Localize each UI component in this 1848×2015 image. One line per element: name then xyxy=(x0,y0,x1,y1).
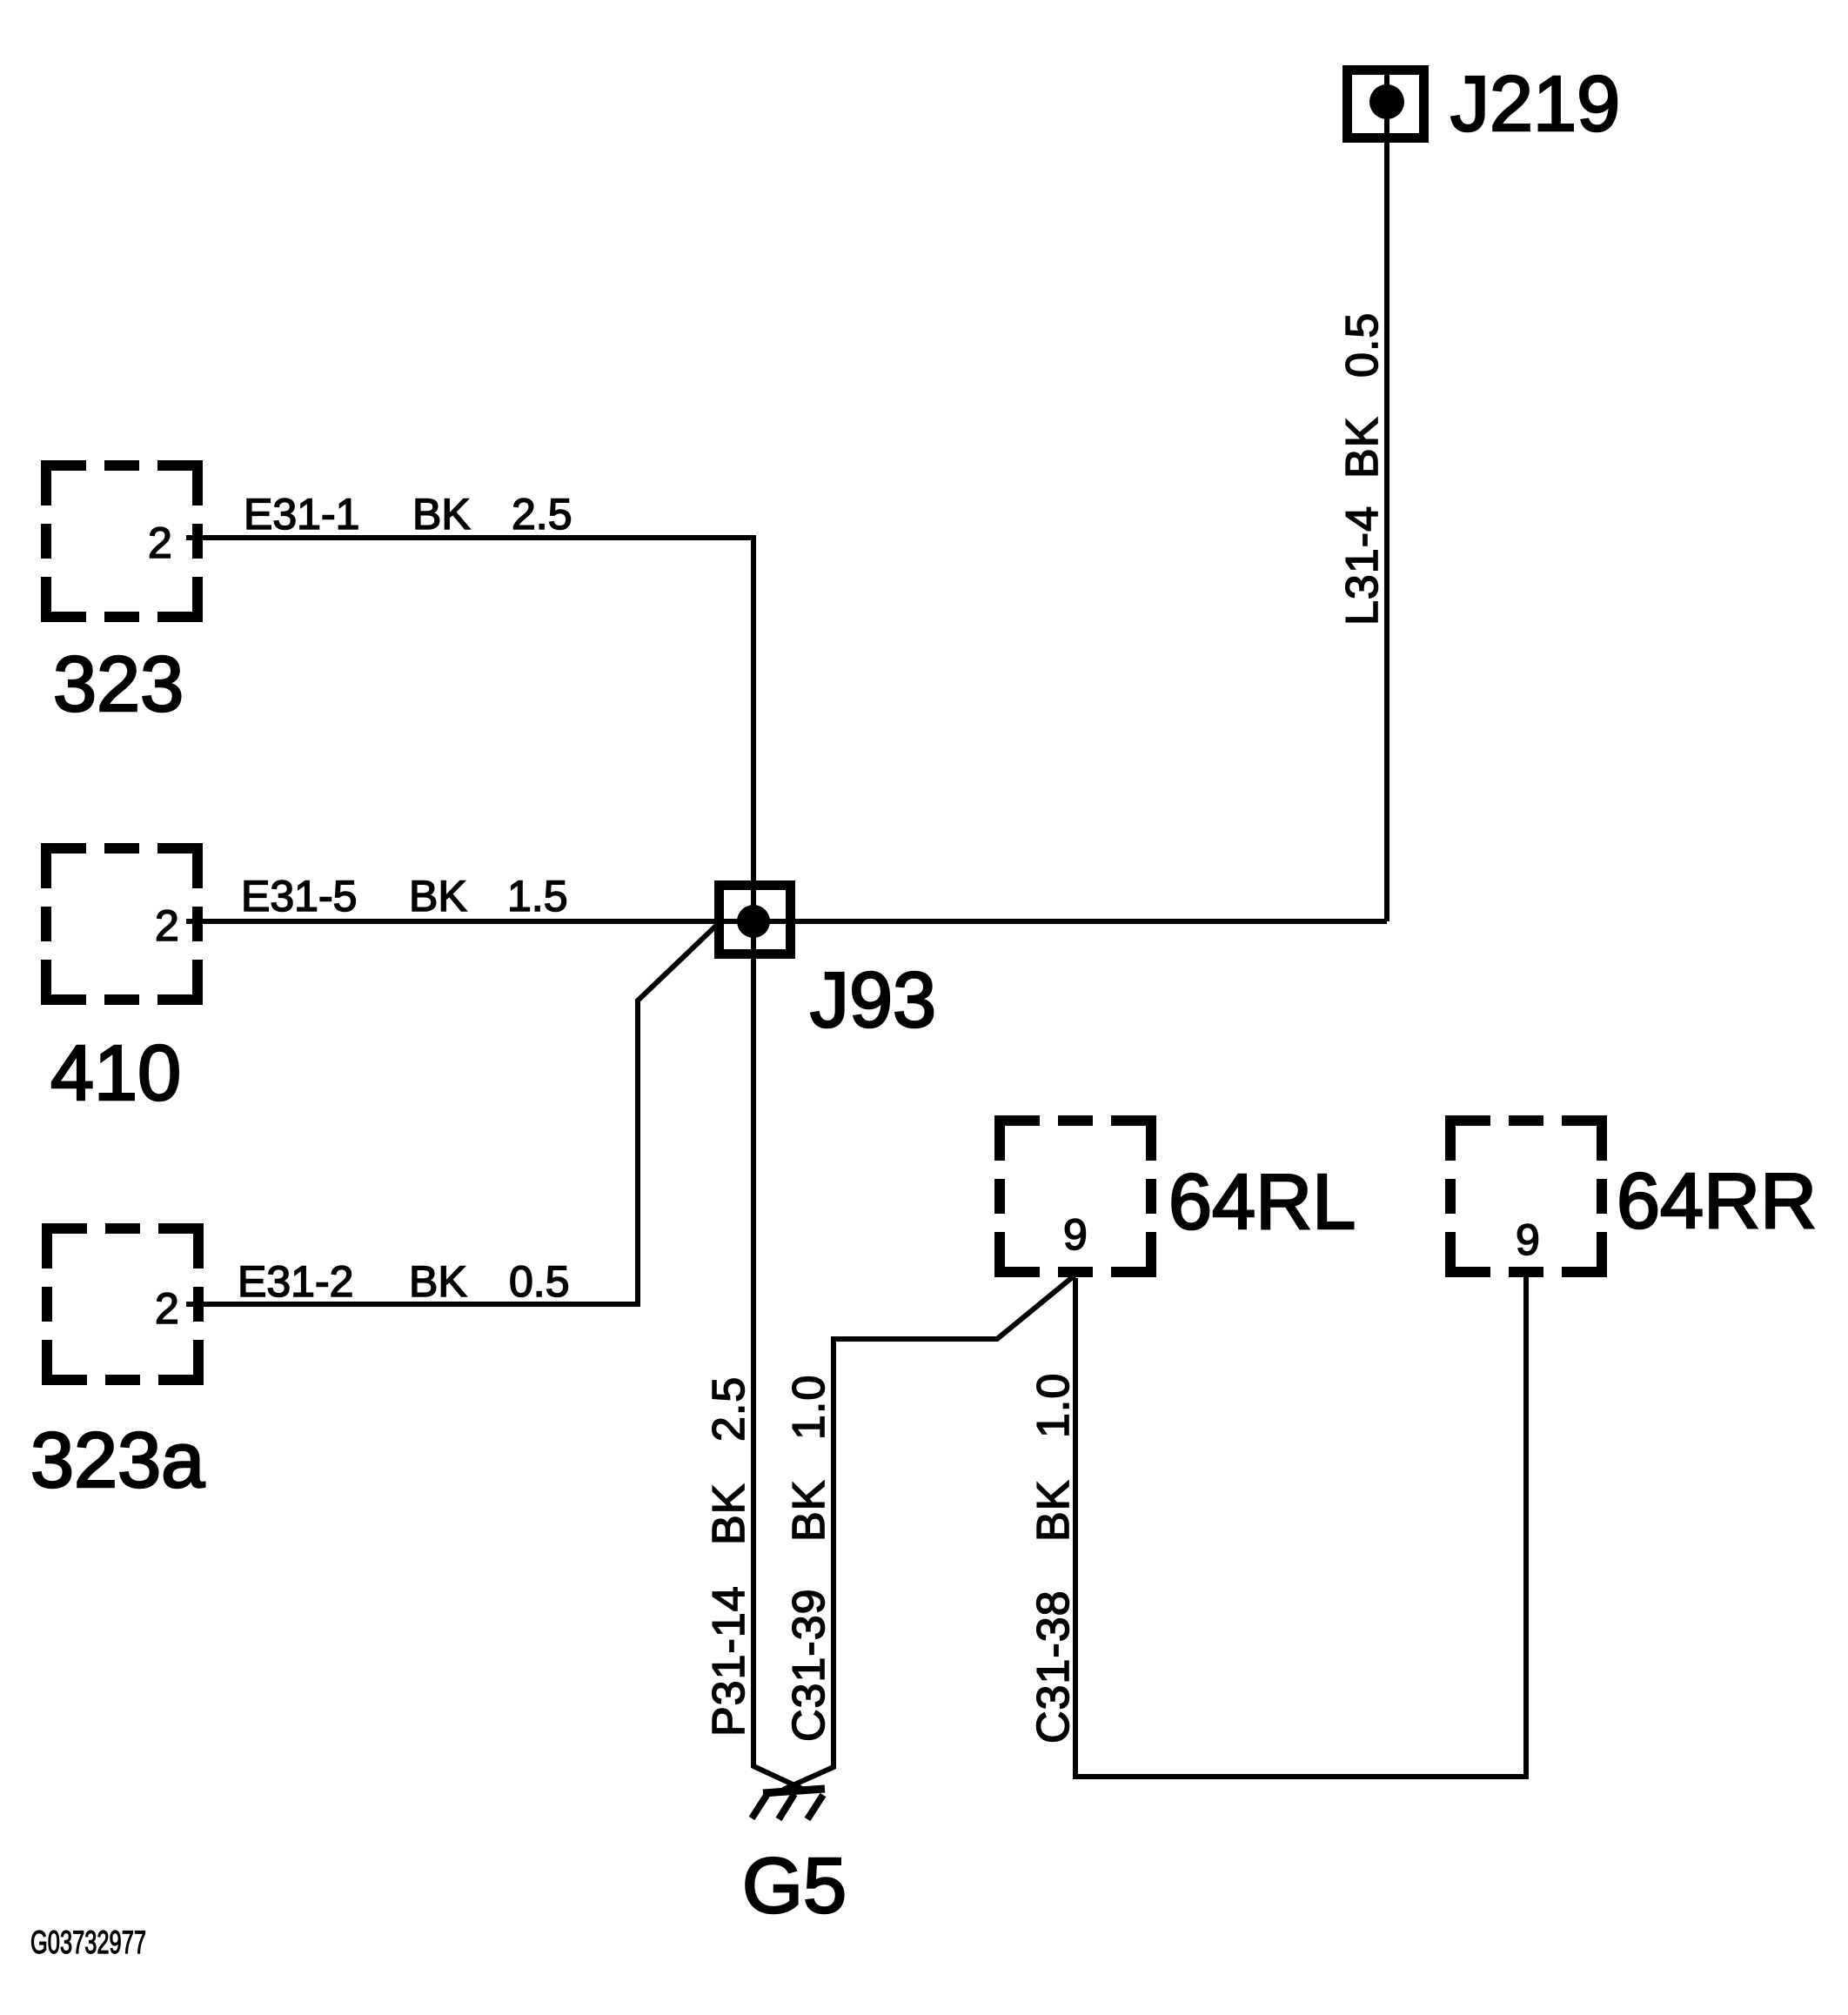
wire C31-39 from 64RL pin 9 to ground G5 xyxy=(783,1275,1075,1790)
svg-text:G5: G5 xyxy=(742,1843,847,1930)
ground G5 hatch 2 xyxy=(779,1794,794,1819)
wire E31-5 from 410 pin 2 through splice J93 to J219 drop xyxy=(186,919,1387,924)
splice J93 dot xyxy=(737,905,770,938)
wire label L31-4 BK 0.5 xyxy=(1337,312,1388,626)
svg-text:2.5: 2.5 xyxy=(512,490,572,539)
svg-text:323a: 323a xyxy=(30,1417,205,1504)
wire label E31-2 BK 0.5 xyxy=(238,1257,570,1306)
svg-text:9: 9 xyxy=(1063,1210,1088,1259)
svg-text:2.5: 2.5 xyxy=(704,1376,754,1442)
svg-text:323: 323 xyxy=(53,641,184,728)
splice J219 dot xyxy=(1369,84,1404,119)
connector 64RL (dashed box) xyxy=(1000,1121,1151,1272)
svg-text:BK: BK xyxy=(409,1257,467,1306)
svg-text:1.0: 1.0 xyxy=(784,1375,834,1440)
svg-text:1.5: 1.5 xyxy=(507,872,568,920)
svg-text:P31-14: P31-14 xyxy=(704,1585,754,1737)
svg-text:J93: J93 xyxy=(810,957,936,1044)
wire label E31-5 BK 1.5 xyxy=(241,872,568,920)
svg-text:C31-38: C31-38 xyxy=(1028,1590,1079,1744)
connector 410 (dashed box) xyxy=(46,848,198,1000)
wire label P31-14 BK 2.5 xyxy=(704,1376,754,1737)
svg-text:9: 9 xyxy=(1516,1215,1540,1264)
splice J219 box xyxy=(1348,70,1424,138)
svg-text:64RR: 64RR xyxy=(1617,1158,1817,1245)
connector 64RR (dashed box) xyxy=(1450,1121,1602,1272)
svg-text:BK: BK xyxy=(412,490,471,539)
svg-text:BK: BK xyxy=(784,1480,834,1542)
svg-text:G03732977: G03732977 xyxy=(30,1925,146,1960)
svg-text:0.5: 0.5 xyxy=(509,1257,570,1306)
svg-text:2: 2 xyxy=(148,519,172,567)
ground G5 symbol bar xyxy=(763,1789,825,1793)
wire E31-1 from 323 pin 2 to splice J93, continuing down as P31-14 to ground G5 xyxy=(186,538,804,1790)
svg-text:E31-2: E31-2 xyxy=(238,1257,353,1306)
wire E31-2 from 323a pin 2 to splice J93 xyxy=(186,926,716,1304)
svg-text:L31-4: L31-4 xyxy=(1337,505,1388,626)
svg-text:BK: BK xyxy=(1028,1480,1079,1542)
svg-text:BK: BK xyxy=(704,1483,754,1545)
svg-text:64RL: 64RL xyxy=(1168,1159,1356,1246)
splice J93 box xyxy=(720,886,791,954)
svg-text:0.5: 0.5 xyxy=(1337,312,1388,378)
connector 323 (dashed box) xyxy=(46,465,198,617)
svg-text:E31-1: E31-1 xyxy=(244,490,359,539)
svg-text:J219: J219 xyxy=(1450,61,1620,148)
ground G5 hatch 1 xyxy=(752,1794,767,1818)
wire L31-4 from splice J219 down to E31-5 wire xyxy=(1384,68,1389,921)
wire C31-38 from 64RL pin 9 to 64RR pin 9 xyxy=(1075,1277,1526,1777)
svg-text:2: 2 xyxy=(155,901,179,950)
ground G5 hatch 3 xyxy=(807,1795,823,1819)
connector 323a (dashed box) xyxy=(47,1228,198,1380)
wire label E31-1 BK 2.5 xyxy=(244,490,572,539)
svg-text:BK: BK xyxy=(409,872,467,920)
svg-text:E31-5: E31-5 xyxy=(241,872,357,920)
svg-text:410: 410 xyxy=(50,1030,181,1117)
wire label C31-38 BK 1.0 xyxy=(1028,1373,1079,1744)
wire label C31-39 BK 1.0 xyxy=(784,1375,834,1742)
svg-text:1.0: 1.0 xyxy=(1028,1373,1079,1438)
svg-text:C31-39: C31-39 xyxy=(784,1588,834,1742)
svg-text:2: 2 xyxy=(155,1284,179,1333)
svg-text:BK: BK xyxy=(1337,417,1388,479)
